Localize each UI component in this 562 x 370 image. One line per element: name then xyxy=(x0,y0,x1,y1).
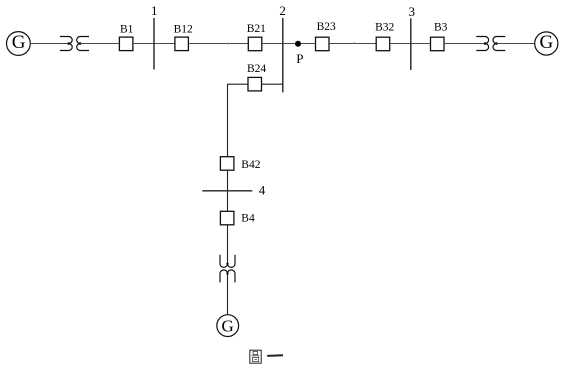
svg-text:B42: B42 xyxy=(241,159,260,171)
wire B21 through bus 2 to B23 xyxy=(262,43,316,45)
wire B42 to B4 through bus 4 xyxy=(227,170,229,211)
svg-text:2: 2 xyxy=(279,3,286,18)
breaker B12 xyxy=(174,24,193,51)
wire T1 to B1 xyxy=(80,43,119,45)
generator G2 (right) xyxy=(535,32,558,55)
bus 4 xyxy=(202,182,265,197)
junction dot T3 lower xyxy=(226,273,228,275)
generator G3 (bottom) xyxy=(217,315,239,337)
junction dot T2 left xyxy=(484,42,487,45)
wire B4 to T3 xyxy=(227,225,229,264)
breaker B1 xyxy=(119,24,133,51)
bus 2 xyxy=(279,3,286,92)
svg-text:P: P xyxy=(296,51,303,66)
transformer T2 right winding xyxy=(493,37,505,51)
bus 3 xyxy=(408,4,415,70)
svg-text:B1: B1 xyxy=(120,24,134,36)
svg-text:G: G xyxy=(222,317,234,336)
wire corner to B24 xyxy=(228,84,249,157)
junction dot T1 left xyxy=(67,42,70,45)
svg-text:3: 3 xyxy=(408,4,415,19)
svg-text:4: 4 xyxy=(259,182,266,197)
faint junction mark on wire xyxy=(227,43,229,45)
breaker B3 xyxy=(431,21,448,50)
svg-text:B4: B4 xyxy=(241,213,255,225)
breaker B42 xyxy=(220,157,260,171)
caption glyph 圖 xyxy=(250,350,261,363)
transformer T1 right winding xyxy=(77,37,89,51)
node P xyxy=(295,41,303,66)
breaker B4 xyxy=(220,211,255,225)
svg-text:G: G xyxy=(12,32,26,53)
bus 1 xyxy=(151,3,158,70)
wire B12 to B21 xyxy=(188,43,248,45)
svg-text:B12: B12 xyxy=(174,24,193,36)
svg-text:B3: B3 xyxy=(434,21,448,33)
caption glyph 一 xyxy=(267,354,283,357)
faint junction mark on wire xyxy=(354,42,356,44)
wire T2 to G2 xyxy=(497,43,535,45)
wire T3 to G3 xyxy=(227,274,229,315)
wire B3 to T2 xyxy=(444,43,485,45)
wire B23 to B32 xyxy=(329,43,376,45)
svg-text:B21: B21 xyxy=(247,23,266,35)
transformer T2 left winding xyxy=(476,37,488,51)
svg-text:B24: B24 xyxy=(247,63,266,75)
breaker B23 xyxy=(316,21,337,51)
transformer T3 upper winding xyxy=(220,255,235,268)
breaker B32 xyxy=(375,21,394,50)
svg-text:G: G xyxy=(540,32,554,53)
svg-text:1: 1 xyxy=(151,3,158,18)
svg-text:B32: B32 xyxy=(375,21,394,33)
generator G1 (left) xyxy=(7,32,31,56)
junction dot T2 right xyxy=(495,42,498,45)
breaker B21 xyxy=(247,23,266,51)
wire B1 to bus 1 xyxy=(133,43,175,45)
wire B32 to B3 through bus 3 xyxy=(390,43,431,45)
breaker B24 xyxy=(247,63,266,91)
transformer T1 left winding xyxy=(60,37,72,51)
transformer T3 lower winding xyxy=(220,270,235,283)
wire B24 to bus 2 xyxy=(262,83,283,85)
wire G1 to T1 xyxy=(30,43,68,45)
junction dot T1 right xyxy=(79,42,82,45)
junction dot T3 upper xyxy=(226,263,228,265)
svg-text:B23: B23 xyxy=(317,21,336,33)
